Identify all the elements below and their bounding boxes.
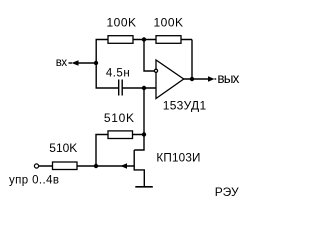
node dot drain / 510K (142, 132, 146, 136)
wire output arrow stub (215, 78, 217, 80)
transistor Q1 channel (133, 150, 135, 171)
node dot gate (94, 164, 98, 168)
wire input arrow stub (69, 62, 73, 64)
wire input vx (79, 62, 97, 64)
arrowhead input vx (72, 60, 79, 65)
svg-text:100K: 100K (153, 16, 183, 30)
wire node C down to transistor drain (134, 88, 144, 150)
svg-text:упр 0..4в: упр 0..4в (9, 174, 59, 186)
capacitor C1 4.5n plates (119, 80, 123, 96)
svg-text:153УД1: 153УД1 (163, 99, 207, 113)
node dot C (cap / lower input) (142, 86, 146, 90)
arrowhead gate (p-channel) (121, 163, 128, 169)
resistor 510K (mid) (108, 131, 133, 139)
wire capacitor right to op-amp lower input (122, 87, 156, 89)
wire right vertical feedback (191, 40, 193, 80)
svg-text:вых: вых (217, 71, 239, 86)
svg-text:4.5н: 4.5н (106, 68, 130, 80)
transistor Q1 source lead (134, 170, 144, 187)
wire control input to gate node (39, 165, 96, 167)
node dot feedback/top (142, 37, 146, 41)
wire op-amp output (184, 78, 209, 80)
resistor 100K (input) (108, 36, 133, 44)
resistor 100K (feedback) (156, 36, 181, 44)
node dot output (190, 77, 194, 81)
svg-text:РЭУ: РЭУ (215, 185, 239, 199)
svg-text:КП103И: КП103И (156, 152, 200, 165)
wire top rail input node to feedback node (96, 40, 192, 89)
wire gate (96, 165, 134, 167)
op-amp inverting input bubble (154, 69, 157, 72)
terminal circle control input (34, 164, 38, 168)
ground (135, 186, 153, 188)
svg-text:100K: 100K (106, 16, 136, 30)
wire feedback node down to op-amp upper input (144, 40, 156, 72)
arrowhead output vyh (208, 76, 215, 81)
wire 510K mid to node C and down left (96, 135, 144, 167)
op-amp U1 153UD1 (156, 60, 184, 99)
svg-text:вх: вх (56, 57, 68, 69)
svg-text:510K: 510K (104, 111, 135, 125)
svg-text:510K: 510K (49, 141, 77, 155)
resistor 510K (control) (53, 162, 78, 170)
node dot input vx (94, 61, 98, 65)
